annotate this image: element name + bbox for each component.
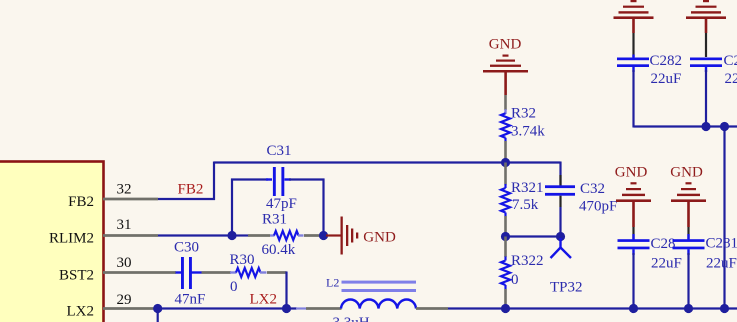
- capacitor C281 plates: [673, 239, 705, 249]
- wire C31 loop top left: [231, 178, 268, 180]
- capacitor C32 pin dark bottom: [559, 196, 561, 207]
- pin 32 lead: [103, 198, 158, 201]
- svg-text:3.74k: 3.74k: [511, 124, 545, 140]
- wire FB2 vertical up: [213, 162, 215, 201]
- inductor L2 core bars: [342, 281, 417, 292]
- resistor R32 stub top: [504, 109, 506, 114]
- svg-text:R30: R30: [230, 252, 255, 268]
- capacitor C283 stub bottom: [705, 67, 707, 72]
- svg-text:32: 32: [117, 182, 132, 198]
- capacitor C31 stub left: [266, 178, 272, 180]
- wire C282 down: [632, 70, 634, 128]
- svg-text:47nF: 47nF: [175, 292, 206, 308]
- ground bars above C28: [616, 182, 651, 227]
- test point TP32 chevron: [551, 248, 572, 259]
- capacitor C282 plates: [617, 58, 649, 68]
- svg-text:R32: R32: [511, 106, 536, 122]
- wire right riser: [723, 127, 725, 309]
- svg-text:C282: C282: [650, 53, 683, 69]
- svg-text:C283: C283: [724, 53, 737, 69]
- svg-text:TP32: TP32: [550, 280, 583, 296]
- svg-text:GND: GND: [615, 165, 648, 181]
- resistor R31 lead left: [248, 234, 270, 237]
- junction dot mid node left: [501, 232, 510, 241]
- wire LX2 branch down: [157, 309, 159, 322]
- wire RLIM2: [158, 234, 236, 236]
- junction dot VOUT2 at C28: [629, 304, 638, 313]
- svg-text:R321: R321: [511, 180, 544, 196]
- capacitor C30 stub right: [192, 271, 202, 273]
- resistor R30 stub right: [260, 271, 267, 273]
- capacitor C32 pin dark top: [559, 175, 561, 186]
- svg-text:7.5k: 7.5k: [512, 197, 539, 213]
- resistor R32 lead top: [504, 95, 507, 110]
- wire C281 down: [687, 253, 689, 309]
- junction dot mid node right: [556, 232, 565, 241]
- ground bars above C283: [686, 0, 726, 33]
- resistor R30 zigzag: [236, 268, 261, 277]
- resistor R31 zigzag: [274, 231, 299, 240]
- svg-text:C31: C31: [267, 143, 292, 159]
- capacitor C281 stub top: [687, 234, 689, 240]
- junction dot VOUT2 at riser: [720, 304, 729, 313]
- svg-text:LX2: LX2: [67, 304, 95, 320]
- resistor R32 lead bottom: [504, 141, 507, 163]
- svg-text:60.4k: 60.4k: [262, 242, 296, 258]
- svg-text:0: 0: [230, 279, 238, 295]
- resistor R321 zigzag: [501, 184, 510, 217]
- svg-text:47pF: 47pF: [266, 196, 297, 212]
- wire C30 to R30: [202, 271, 232, 274]
- svg-text:3.3uH: 3.3uH: [333, 315, 370, 322]
- junction dot RLIM2 left: [227, 231, 236, 240]
- junction dot VOUT2 at C281: [684, 304, 693, 313]
- capacitor C32 plates: [545, 185, 575, 195]
- svg-text:30: 30: [117, 255, 132, 271]
- capacitor C31 stub right: [285, 178, 292, 180]
- resistor R322 lead top: [504, 237, 507, 258]
- resistor R322 lead bottom: [504, 289, 507, 309]
- svg-text:C28: C28: [651, 236, 676, 252]
- svg-text:22uF: 22uF: [651, 256, 682, 272]
- junction dot VOUT2 at R322: [501, 304, 510, 313]
- ground bars above C282: [614, 0, 654, 33]
- capacitor C282 stub bottom: [632, 67, 634, 72]
- svg-text:BST2: BST2: [59, 268, 94, 284]
- svg-text:22uF: 22uF: [725, 71, 737, 87]
- svg-text:22uF: 22uF: [706, 256, 737, 272]
- test point TP32 stem: [559, 238, 561, 248]
- wire C31 loop top right: [289, 178, 325, 180]
- junction dot C283: [701, 122, 710, 131]
- resistor R31 lead right: [304, 234, 322, 237]
- wire C32 vertical top: [559, 162, 561, 187]
- resistor R31 stub left: [270, 234, 275, 236]
- resistor R32 zigzag: [501, 113, 510, 141]
- capacitor C28 plates: [618, 239, 650, 249]
- resistor R322 zigzag: [501, 257, 510, 290]
- wire LX2 rail: [154, 307, 297, 309]
- svg-text:C30: C30: [174, 240, 199, 256]
- capacitor C28 stub bottom: [632, 249, 634, 255]
- inductor L2 lead right: [416, 307, 448, 310]
- inductor L2 humps: [341, 300, 416, 309]
- capacitor C283 pin dark top: [705, 33, 707, 57]
- svg-text:LX2: LX2: [250, 292, 278, 308]
- svg-text:L2: L2: [326, 276, 339, 290]
- svg-text:29: 29: [117, 292, 132, 308]
- wire top-right horizontal: [634, 125, 737, 127]
- ground GND sideways bars: [341, 217, 359, 255]
- resistor R30 lead right: [267, 271, 287, 274]
- capacitor C281 pin dark top: [687, 227, 689, 239]
- capacitor C28 stub top: [632, 234, 634, 240]
- resistor R31 stub right: [298, 234, 304, 236]
- capacitor C30 stub left: [176, 271, 182, 273]
- junction dot LX2 left: [153, 304, 162, 313]
- ground GND top standalone bars: [483, 55, 528, 96]
- svg-text:RLIM2: RLIM2: [49, 231, 94, 247]
- resistor R321 lead top: [504, 163, 507, 185]
- wire RLIM2 to R31: [232, 234, 248, 236]
- capacitor C283 plates: [690, 58, 722, 68]
- svg-text:0: 0: [511, 272, 519, 288]
- junction dot FB node: [501, 158, 510, 167]
- junction dot right riser top: [720, 122, 729, 131]
- wire C283 down: [705, 70, 707, 127]
- capacitor C282 pin dark top: [632, 33, 634, 57]
- capacitor C281 stub bottom: [687, 249, 689, 255]
- junction dot LX2 at R30: [282, 304, 291, 313]
- svg-text:22uF: 22uF: [651, 71, 682, 87]
- capacitor C282 stub top: [632, 55, 634, 59]
- wire VOUT2 rail: [448, 307, 737, 309]
- wire FB2 horizontal: [158, 198, 215, 200]
- pin 30 lead: [103, 271, 176, 274]
- wire mid node horizontal: [506, 235, 561, 237]
- capacitor C31 plates: [273, 167, 284, 196]
- svg-text:FB2: FB2: [68, 194, 94, 210]
- svg-text:C281: C281: [706, 236, 737, 252]
- svg-text:470pF: 470pF: [579, 199, 617, 215]
- svg-text:GND: GND: [489, 37, 522, 53]
- junction dot RLIM2 right: [319, 231, 328, 240]
- svg-text:R31: R31: [262, 212, 287, 228]
- IC U3 body: [0, 162, 104, 322]
- resistor R30 stub left: [230, 271, 237, 273]
- pin 31 lead: [103, 234, 158, 237]
- svg-text:C32: C32: [580, 181, 605, 197]
- wire C31 loop right vertical: [322, 179, 324, 236]
- svg-text:R322: R322: [511, 253, 544, 269]
- svg-text:31: 31: [117, 217, 132, 233]
- GND sideways wire stub: [326, 234, 341, 236]
- pin 29 lead: [103, 307, 154, 310]
- capacitor C28 pin dark top: [632, 227, 634, 239]
- resistor R321 lead bottom: [504, 216, 507, 237]
- capacitor C30 plates: [181, 257, 192, 289]
- wire C31 loop left vertical: [231, 179, 233, 236]
- ground bars above C281: [671, 182, 706, 227]
- wire C28 down: [632, 253, 634, 309]
- wire C32 vertical bottom: [559, 207, 561, 237]
- svg-text:GND: GND: [363, 230, 396, 246]
- svg-text:GND: GND: [670, 165, 703, 181]
- wire R30 down to LX2: [285, 272, 287, 309]
- wire FB2 top horizontal: [214, 161, 561, 163]
- svg-text:FB2: FB2: [178, 182, 204, 198]
